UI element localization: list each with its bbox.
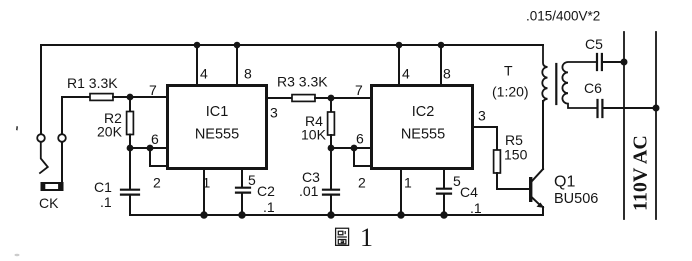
wire to IC2 pin 6 xyxy=(331,147,370,149)
svg-text:T: T xyxy=(504,63,513,79)
node pin8 on rail xyxy=(234,42,241,49)
op IC2 NE555 box xyxy=(372,86,473,169)
capacitor C6 xyxy=(598,100,603,117)
svg-text:5: 5 xyxy=(248,172,256,188)
svg-text:.01: .01 xyxy=(299,183,319,199)
svg-text:2: 2 xyxy=(153,175,161,191)
wire C3 to ground xyxy=(330,196,332,216)
svg-text:NE555: NE555 xyxy=(401,127,445,143)
svg-text:1: 1 xyxy=(360,223,373,252)
wire jack right contact down to body xyxy=(61,142,63,182)
node pin6/pin2 tie xyxy=(147,145,154,152)
svg-text:7: 7 xyxy=(149,82,157,98)
node R1/R2 junction xyxy=(127,94,134,101)
node R3/R4 junction xyxy=(328,95,335,102)
wire R4 bottom lead xyxy=(330,135,332,148)
wire C1 bottom lead to ground rail xyxy=(129,196,131,216)
transistor Q1 emitter with arrow xyxy=(532,198,541,207)
svg-text:8: 8 xyxy=(244,66,252,82)
capacitor C1 xyxy=(121,190,139,195)
wire C1 top lead xyxy=(129,148,131,189)
node C6 output junction xyxy=(653,105,660,112)
capacitor C5 xyxy=(597,54,602,70)
wire collector up to transformer primary xyxy=(542,101,544,169)
node C2 on rail xyxy=(238,211,245,218)
wire output line right xyxy=(655,32,657,219)
svg-text:7: 7 xyxy=(355,82,363,98)
svg-text:6: 6 xyxy=(151,131,159,147)
svg-text:1: 1 xyxy=(203,175,211,191)
svg-text:.1: .1 xyxy=(100,194,112,210)
wire R2 bottom lead xyxy=(129,135,131,149)
svg-text:10K: 10K xyxy=(301,127,327,143)
wire C3 top lead xyxy=(330,148,332,189)
svg-text:.015/400V*2: .015/400V*2 xyxy=(526,9,600,24)
resistor R5 body xyxy=(494,150,501,173)
svg-text:R3 3.3K: R3 3.3K xyxy=(277,74,328,90)
node pin6/pin2 tie IC2 xyxy=(351,145,358,152)
wire R1 left lead and corner down to jack xyxy=(62,97,90,134)
resistor R1 body xyxy=(90,94,113,101)
svg-text:8: 8 xyxy=(443,66,451,82)
node IC2 pin8 on rail xyxy=(438,42,445,49)
node pin4 on rail xyxy=(194,42,201,49)
svg-text:IC2: IC2 xyxy=(412,104,435,120)
node C3 on rail xyxy=(327,211,334,218)
jack CK spring contact chevron xyxy=(40,142,48,173)
svg-text:3: 3 xyxy=(478,108,486,124)
node R4/C3/pin6 junction xyxy=(328,145,335,152)
wire output line left xyxy=(623,32,625,219)
svg-text:C4: C4 xyxy=(460,184,478,200)
op IC1 NE555 box xyxy=(168,86,267,169)
wire IC2 pin 3 output xyxy=(474,127,497,150)
svg-text:Q1: Q1 xyxy=(554,174,575,191)
wire IC1 pin 1 to ground xyxy=(203,170,205,215)
wire IC2 pin 1 to ground xyxy=(400,170,402,215)
svg-text:.1: .1 xyxy=(263,199,275,215)
wire step to IC1 pin 2 xyxy=(150,148,166,166)
wire left rail down to jack xyxy=(40,45,42,134)
jack CK left contact circle xyxy=(37,134,45,142)
wire R3 to IC2 pin 7 xyxy=(315,97,370,99)
svg-text:.1: .1 xyxy=(470,200,482,216)
resistor R3 body xyxy=(292,95,315,102)
svg-text:3: 3 xyxy=(270,105,278,121)
jack CK right contact circle xyxy=(58,134,66,142)
svg-text:C6: C6 xyxy=(584,80,602,96)
wire R2 top lead xyxy=(129,97,131,112)
svg-text:110V AC: 110V AC xyxy=(630,135,652,211)
wire C2 to ground xyxy=(241,194,243,216)
svg-text:CK: CK xyxy=(39,195,59,211)
wire IC1 pin 5 lead xyxy=(241,170,243,187)
svg-text:2: 2 xyxy=(358,175,366,191)
speck artifact lower xyxy=(15,254,20,256)
capacitor C3 xyxy=(323,190,339,195)
svg-text:4: 4 xyxy=(200,66,208,82)
svg-text:BU506: BU506 xyxy=(554,191,598,207)
node IC2 pin4 on rail xyxy=(396,42,403,49)
speck artifact upper xyxy=(16,126,18,131)
svg-text:6: 6 xyxy=(356,131,364,147)
svg-text:IC1: IC1 xyxy=(206,104,229,120)
node C5 output junction xyxy=(621,59,628,66)
node pin1 on rail xyxy=(200,211,207,218)
svg-text:R1 3.3K: R1 3.3K xyxy=(67,75,118,91)
wire IC2 pin 5 lead xyxy=(443,170,445,188)
svg-text:4: 4 xyxy=(402,66,410,82)
svg-text:150: 150 xyxy=(504,147,528,163)
transformer T secondary winding xyxy=(562,62,596,108)
wire IC1 pin 3 output xyxy=(268,97,292,99)
wire emitter to ground rail xyxy=(542,207,544,215)
caption figure number xyxy=(336,228,349,245)
svg-text:NE555: NE555 xyxy=(195,127,239,143)
resistor R4 body xyxy=(328,112,335,135)
node C4 on rail xyxy=(440,211,447,218)
wire IC1 pin 8 xyxy=(236,45,238,84)
wire C4 to ground xyxy=(443,195,445,216)
jack CK body xyxy=(41,182,64,191)
wire R5 to Q1 base xyxy=(497,173,528,189)
capacitor C2 xyxy=(236,188,250,193)
transistor Q1 base bar xyxy=(529,177,532,202)
wire IC2 pin 8 xyxy=(440,45,442,84)
transistor Q1 collector xyxy=(532,169,543,181)
capacitor C4 xyxy=(437,189,451,194)
svg-text:1: 1 xyxy=(404,175,412,191)
wire R1 to IC1 pin7 xyxy=(113,96,166,98)
node R2/C1/pin6 junction xyxy=(127,145,134,152)
wire step to IC2 pin 2 xyxy=(354,148,370,166)
svg-text:C1: C1 xyxy=(94,179,112,195)
wire top supply rail xyxy=(41,44,543,46)
wire IC1 pin 4 xyxy=(196,45,198,84)
node IC2 pin1 on rail xyxy=(397,211,404,218)
wire bottom ground rail xyxy=(130,214,543,216)
svg-text:C2: C2 xyxy=(257,183,275,199)
svg-text:C5: C5 xyxy=(585,36,603,52)
transformer T primary winding xyxy=(542,45,547,103)
svg-text:20K: 20K xyxy=(97,124,123,140)
wire R4 top lead xyxy=(330,98,332,112)
wire to IC1 pin 6 xyxy=(130,147,166,149)
wire IC2 pin 4 xyxy=(398,45,400,84)
resistor R2 body xyxy=(127,112,134,135)
transformer T core xyxy=(555,64,557,104)
wire C6 to right output line xyxy=(603,107,656,109)
svg-text:(1:20): (1:20) xyxy=(492,84,529,100)
wire C5 to left output line xyxy=(603,61,624,63)
